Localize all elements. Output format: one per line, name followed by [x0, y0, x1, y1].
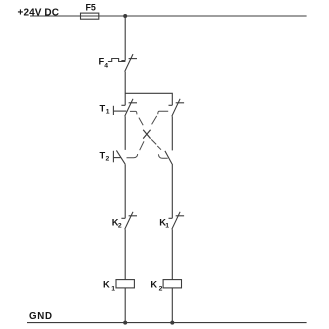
node: junction GND rail / left branch — [123, 321, 127, 325]
wire: right branch between T2 and K1 — [171, 165, 173, 218]
mechanical interlock dashed link A (T1 left to T2 right) — [130, 111, 168, 158]
svg-text:F5: F5 — [86, 2, 96, 12]
wire: left branch between T2 and K2 — [124, 164, 126, 218]
svg-text:1: 1 — [111, 286, 115, 293]
contact K2 (NC auxiliary contact) — [121, 212, 137, 230]
wire: branch connector to right branch — [125, 93, 172, 105]
wire: right branch between K1 contact and K2 coil — [171, 229, 173, 279]
label T2 — [100, 151, 110, 163]
mechanical interlock dashed link B (T1 right to T2 left) — [127, 111, 169, 158]
contact T2 right (NO contact of interlock) — [165, 151, 173, 165]
wire: left branch from supply junction to contact F4 — [124, 16, 126, 61]
svg-text:+24V DC: +24V DC — [18, 7, 60, 18]
svg-text:T: T — [100, 103, 106, 113]
svg-text:2: 2 — [118, 223, 122, 230]
label K1 (coil) — [103, 279, 115, 292]
wire: GND rail — [27, 322, 307, 324]
label K2 (coil) — [150, 279, 162, 292]
actuator of T1 (pushbutton bar) — [113, 106, 126, 115]
svg-text:2: 2 — [159, 286, 163, 293]
svg-text:2: 2 — [106, 156, 110, 163]
actuator of T2 (pushbutton bar) — [113, 151, 120, 163]
wire: left branch between F4 and T1 (through branch split) — [124, 72, 126, 106]
node: junction supply rail / left branch — [123, 14, 127, 18]
contact F4 (NC overload contact) — [121, 54, 137, 72]
svg-text:K: K — [103, 279, 110, 289]
svg-text:1: 1 — [165, 223, 169, 230]
coil K1 — [116, 280, 134, 288]
coil K2 — [163, 280, 181, 288]
wire: left branch between T1 and T2 — [124, 116, 126, 150]
wire: +24V supply rail — [30, 15, 307, 17]
actuator linkage of F4 (thermal trip step) — [108, 59, 126, 62]
label K2 (contact) — [112, 217, 122, 229]
interlock cross X — [143, 130, 150, 139]
svg-text:1: 1 — [106, 109, 110, 116]
contact T1 left (NC pushbutton) — [121, 99, 137, 117]
label K1 (contact) — [159, 217, 169, 229]
contact K1 (NC auxiliary contact) — [169, 212, 185, 230]
wire: left branch from K1 coil to GND rail — [124, 288, 126, 323]
contact T1 right (NC contact of interlock) — [169, 99, 185, 117]
node: junction GND rail / right branch — [170, 321, 174, 325]
wire: left branch between K2 contact and K1 coil — [124, 229, 126, 279]
svg-text:K: K — [150, 279, 157, 289]
fuse F5 — [81, 13, 99, 19]
label F4 — [99, 57, 109, 70]
svg-text:GND: GND — [29, 311, 52, 322]
wire: right branch from K2 coil to GND rail — [171, 288, 173, 323]
wire: right branch between T1 and T2 — [171, 116, 173, 150]
svg-text:4: 4 — [104, 63, 108, 70]
contact T2 left (NO pushbutton) — [116, 150, 125, 164]
label T1 — [100, 103, 110, 115]
